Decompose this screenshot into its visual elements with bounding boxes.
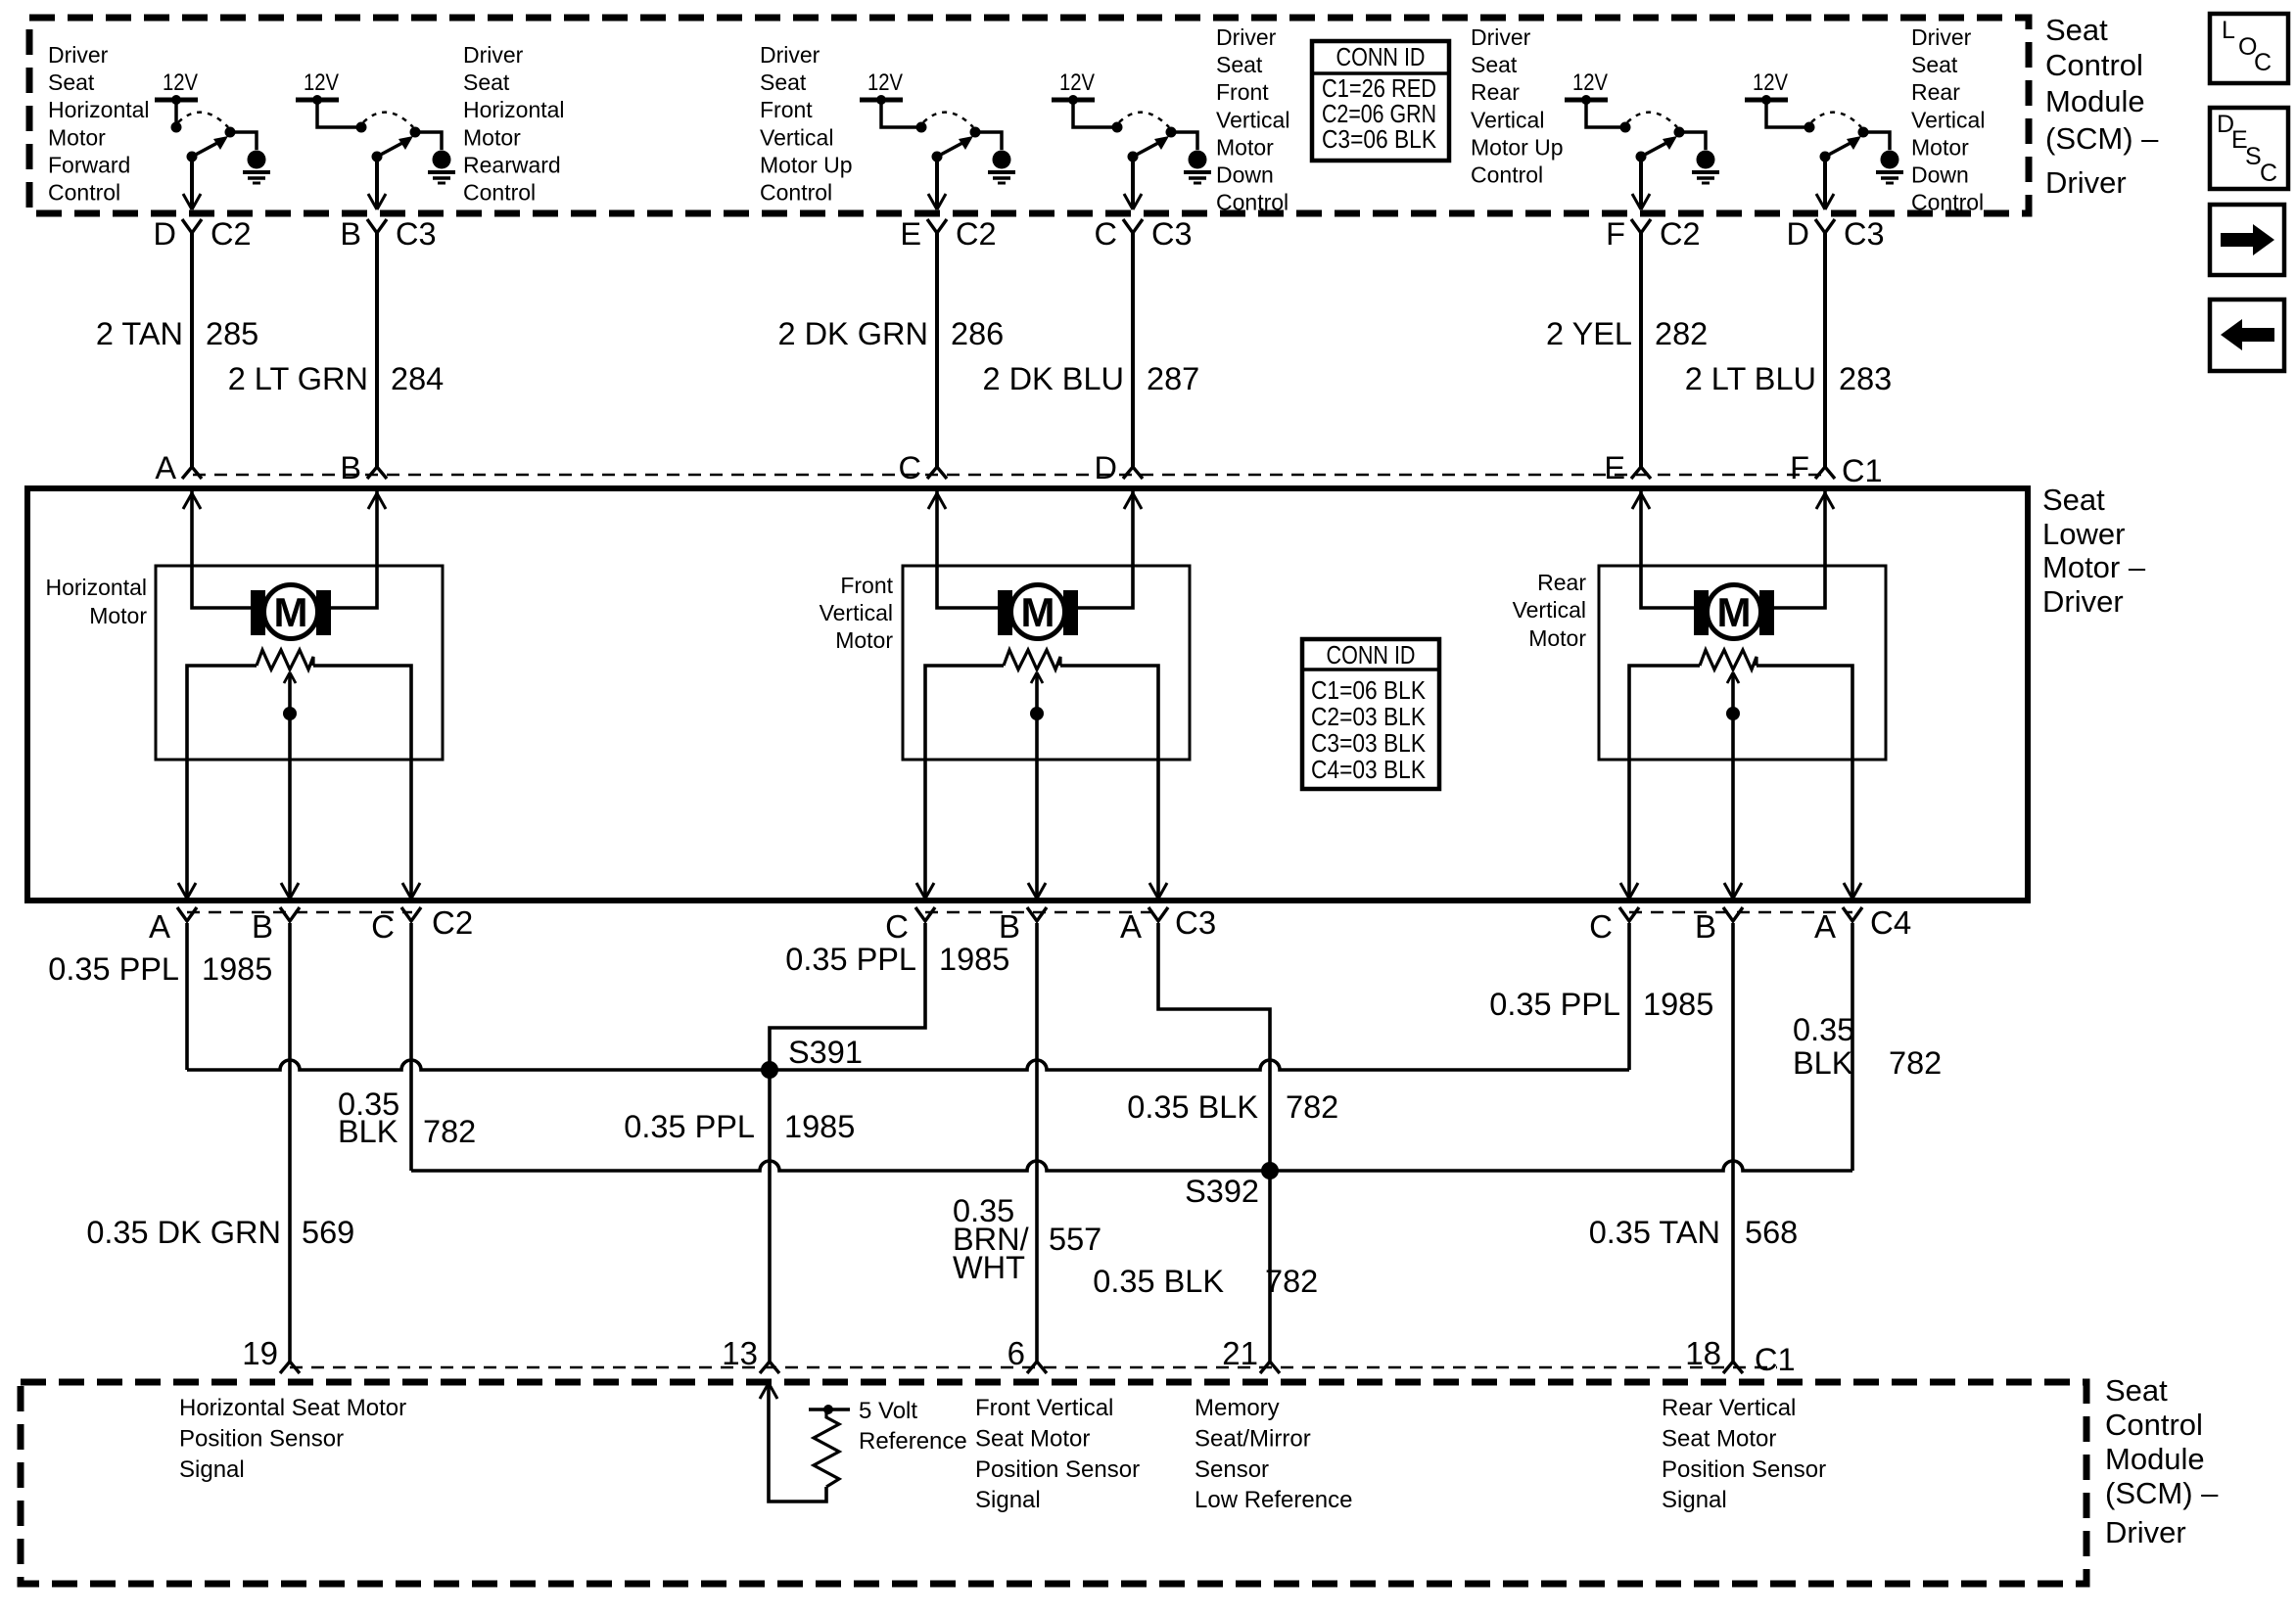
- svg-text:Horizontal Seat Motor: Horizontal Seat Motor: [179, 1395, 406, 1421]
- svg-text:B: B: [252, 908, 273, 945]
- svg-text:Control: Control: [1911, 190, 1984, 215]
- box Seat Control Module (SCM) Driver - bottom (dashed): [21, 1382, 2086, 1584]
- wire SW1 output: [190, 157, 194, 208]
- svg-text:Rear: Rear: [1537, 570, 1586, 595]
- svg-text:C3: C3: [396, 216, 437, 252]
- connector ID table CONN ID (middle): [1302, 639, 1439, 789]
- svg-text:A: A: [149, 908, 170, 945]
- svg-text:B: B: [1695, 908, 1716, 945]
- svg-text:M: M: [1717, 589, 1752, 635]
- wire R3 wiper: [1731, 674, 1735, 899]
- svg-text:Seat Motor: Seat Motor: [1662, 1425, 1776, 1452]
- wire M1 left feed: [192, 491, 251, 608]
- svg-text:Horizontal: Horizontal: [463, 97, 565, 122]
- svg-text:Down: Down: [1216, 162, 1274, 188]
- switch SW5 common contact: [1620, 122, 1631, 133]
- svg-text:569: 569: [302, 1215, 354, 1250]
- arrow into motor box at 1157: [1124, 493, 1142, 509]
- wire SW1 feed: [174, 100, 178, 126]
- box Seat Lower Motor - Driver (solid): [27, 488, 2028, 901]
- wire 2 DK GRN 286: [935, 233, 939, 467]
- switch SW1 NC contact: [225, 127, 236, 138]
- svg-text:2 TAN: 2 TAN: [96, 316, 183, 351]
- switch SW2 NC contact: [410, 127, 421, 138]
- svg-text:S391: S391: [788, 1035, 863, 1070]
- svg-text:Signal: Signal: [179, 1456, 245, 1483]
- wire SW3 output: [935, 157, 939, 208]
- svg-text:Down: Down: [1911, 162, 1969, 188]
- arrow out of motor box at 1059: [1028, 883, 1046, 899]
- switch SW3 pivot: [932, 152, 943, 162]
- svg-text:2 DK BLU: 2 DK BLU: [982, 361, 1124, 396]
- svg-text:Control: Control: [463, 180, 536, 206]
- switch SW4 movable blade: [1133, 143, 1158, 157]
- svg-text:782: 782: [423, 1114, 476, 1149]
- svg-text:285: 285: [206, 316, 258, 351]
- connector pin D of C3 (top row): [1815, 219, 1835, 233]
- svg-text:Motor: Motor: [1216, 134, 1274, 160]
- arrow SW4 output into connector: [1124, 194, 1142, 209]
- wire 2 LT GRN 284: [375, 233, 379, 467]
- svg-text:Motor: Motor: [1911, 134, 1969, 160]
- svg-text:6: 6: [1007, 1335, 1025, 1371]
- svg-text:C2: C2: [956, 216, 997, 252]
- svg-text:Module: Module: [2105, 1442, 2205, 1476]
- svg-text:Forward: Forward: [48, 152, 130, 177]
- switch SW6 dashed travel arc: [1811, 113, 1861, 127]
- svg-text:C2: C2: [211, 216, 252, 252]
- ground G6: [1881, 151, 1899, 169]
- svg-text:Vertical: Vertical: [1911, 107, 1985, 132]
- wire 0.35 BLK 782 from C2-C down: [409, 923, 413, 1171]
- switch SW2 pivot: [372, 152, 383, 162]
- svg-text:C2: C2: [1660, 216, 1701, 252]
- svg-text:557: 557: [1049, 1222, 1101, 1257]
- svg-text:Seat: Seat: [1471, 52, 1518, 77]
- switch SW6 movable blade: [1825, 143, 1851, 157]
- node wiper junction M3: [1726, 707, 1740, 720]
- wire SW5 NC to ground: [1679, 132, 1706, 150]
- svg-text:E: E: [900, 216, 921, 252]
- wire 0.35 BLK 782 from C3-A to S392: [1158, 923, 1270, 1171]
- svg-text:D: D: [154, 216, 176, 252]
- svg-text:0.35 DK GRN: 0.35 DK GRN: [86, 1215, 281, 1250]
- svg-text:C4: C4: [1870, 904, 1911, 941]
- connector pin F of C1 (row 2): [1815, 467, 1835, 479]
- svg-text:CONN ID: CONN ID: [1327, 640, 1416, 670]
- svg-text:Seat: Seat: [2105, 1373, 2168, 1408]
- arrow out of motor box at 1770: [1724, 883, 1742, 899]
- motor sub-box M2: [903, 566, 1190, 760]
- svg-text:C1: C1: [1842, 453, 1883, 488]
- svg-text:1985: 1985: [202, 951, 272, 987]
- svg-text:Front Vertical: Front Vertical: [975, 1395, 1113, 1421]
- wire 0.35 BRN/WHT 557: [1035, 923, 1039, 1364]
- svg-text:Seat Motor: Seat Motor: [975, 1425, 1090, 1452]
- connector pin B of C3 (top row): [367, 219, 387, 233]
- connector pin A (row 3): [1843, 907, 1862, 921]
- wire 2 DK BLU 287: [1131, 233, 1135, 467]
- svg-text:C: C: [899, 450, 921, 485]
- arrow into motor box at 1676: [1632, 493, 1650, 509]
- wire 0.35 PPL 1985 from S391 right: [770, 1060, 1629, 1070]
- connector C4 dashed line (row 3): [1629, 911, 1852, 914]
- svg-text:Driver: Driver: [463, 42, 524, 68]
- svg-text:Control: Control: [2045, 48, 2143, 82]
- wire M1 right feed: [331, 491, 377, 608]
- wire 5 Volt reference: [769, 1385, 826, 1501]
- svg-text:CONN ID: CONN ID: [1336, 42, 1426, 71]
- switch SW2 common contact: [356, 122, 367, 133]
- svg-text:19: 19: [242, 1335, 278, 1371]
- wire SW6 feed: [1766, 100, 1809, 127]
- svg-text:0.35: 0.35: [1793, 1012, 1854, 1047]
- arrow SW3 output into connector: [928, 194, 946, 209]
- svg-text:C3=03 BLK: C3=03 BLK: [1311, 728, 1427, 758]
- connector pin E of C2 (top row): [927, 219, 947, 233]
- wire 2 LT BLU 283: [1823, 233, 1827, 467]
- wire 2 TAN 285: [190, 233, 194, 467]
- svg-text:Position Sensor: Position Sensor: [975, 1456, 1140, 1483]
- svg-text:Seat: Seat: [2042, 483, 2105, 517]
- svg-text:Horizontal: Horizontal: [48, 97, 150, 122]
- svg-text:Motor –: Motor –: [2042, 550, 2146, 584]
- switch SW6 NC contact: [1858, 127, 1869, 138]
- svg-text:(SCM) –: (SCM) –: [2045, 121, 2159, 156]
- wire M3 left feed: [1641, 491, 1694, 608]
- svg-text:Position Sensor: Position Sensor: [179, 1425, 344, 1452]
- svg-text:Control: Control: [1471, 162, 1543, 188]
- svg-text:Vertical: Vertical: [1513, 597, 1586, 623]
- svg-text:12V: 12V: [1059, 69, 1095, 96]
- svg-text:Rearward: Rearward: [463, 152, 561, 177]
- connector pin F of C2 (top row): [1631, 219, 1651, 233]
- potentiometer R1 zigzag: [257, 650, 313, 670]
- switch SW1 movable blade: [192, 143, 217, 157]
- ground G2: [433, 151, 451, 169]
- svg-text:C1=06 BLK: C1=06 BLK: [1311, 675, 1427, 705]
- wire M2 right feed: [1078, 491, 1133, 608]
- svg-text:1985: 1985: [784, 1109, 855, 1144]
- motor M2 armature circle: [1011, 585, 1065, 639]
- svg-text:12V: 12V: [304, 69, 339, 96]
- svg-text:Driver: Driver: [2042, 584, 2124, 619]
- svg-text:A: A: [1814, 908, 1836, 945]
- arrow into motor box at 957: [928, 493, 946, 509]
- svg-text:Memory: Memory: [1195, 1395, 1280, 1421]
- svg-text:Signal: Signal: [1662, 1487, 1727, 1513]
- svg-text:C: C: [1095, 216, 1117, 252]
- svg-text:0.35 BLK: 0.35 BLK: [1093, 1264, 1224, 1299]
- svg-text:2 YEL: 2 YEL: [1546, 316, 1632, 351]
- box right-arrow: [2210, 205, 2284, 275]
- svg-text:M: M: [274, 589, 308, 635]
- svg-text:Seat: Seat: [1216, 52, 1263, 77]
- arrow into motor box at 196: [183, 493, 201, 509]
- svg-text:Driver: Driver: [1911, 24, 1972, 50]
- svg-text:12V: 12V: [163, 69, 198, 96]
- wire R1 wiper: [288, 674, 292, 899]
- wire M2 left feed: [937, 491, 998, 608]
- svg-text:C: C: [1589, 908, 1613, 945]
- switch SW4 common contact: [1112, 122, 1123, 133]
- svg-text:12V: 12V: [1753, 69, 1788, 96]
- svg-text:F: F: [1790, 450, 1809, 485]
- svg-text:Rear Vertical: Rear Vertical: [1662, 1395, 1796, 1421]
- svg-text:A: A: [1120, 908, 1142, 945]
- svg-text:M: M: [1021, 589, 1055, 635]
- motor M2 brushes: [998, 590, 1012, 635]
- switch SW6 common contact: [1804, 122, 1815, 133]
- wire SW3 NC to ground: [975, 132, 1002, 150]
- connector pin A (row 3): [177, 907, 197, 921]
- ground G3: [993, 151, 1011, 169]
- resistor 5V reference zigzag: [814, 1409, 839, 1487]
- connector pin A of C1 (row 2): [182, 467, 202, 479]
- svg-text:Vertical: Vertical: [1471, 107, 1544, 132]
- wire SW4 feed: [1073, 100, 1117, 127]
- svg-text:0.35 PPL: 0.35 PPL: [785, 942, 916, 977]
- wire 0.35 BLK 782 from S392 right: [1270, 1161, 1852, 1171]
- svg-text:S392: S392: [1185, 1174, 1259, 1209]
- arrow out of motor box at 1892: [1844, 883, 1861, 899]
- svg-text:Control: Control: [1216, 190, 1289, 215]
- svg-text:0.35 BLK: 0.35 BLK: [1127, 1089, 1258, 1125]
- svg-text:782: 782: [1889, 1045, 1942, 1081]
- switch SW5 NC contact: [1674, 127, 1685, 138]
- connector C3 dashed line (row 3): [925, 911, 1158, 914]
- box left-arrow: [2210, 300, 2284, 371]
- switch SW1 common contact: [171, 122, 182, 133]
- wire 0.35 PPL 1985 down to pin 13: [768, 1070, 772, 1364]
- node wiper junction M1: [283, 707, 297, 720]
- svg-text:Position Sensor: Position Sensor: [1662, 1456, 1826, 1483]
- svg-text:287: 287: [1147, 361, 1199, 396]
- connector pin B (row 3): [1723, 907, 1743, 921]
- ground G1: [248, 151, 266, 169]
- wire 0.35 BLK 782 up to C4-A: [1851, 923, 1854, 1171]
- svg-text:12V: 12V: [867, 69, 903, 96]
- wire R3 right lead: [1757, 666, 1852, 899]
- node 5V reference terminal bar: [809, 1408, 850, 1411]
- arrow SW5 output into connector: [1632, 194, 1650, 209]
- motor M1 armature circle: [264, 585, 318, 639]
- switch SW3 dashed travel arc: [923, 113, 973, 127]
- svg-text:L: L: [2222, 17, 2235, 44]
- switch SW5 pivot: [1636, 152, 1647, 162]
- svg-text:0.35 PPL: 0.35 PPL: [48, 951, 179, 987]
- svg-text:13: 13: [722, 1335, 758, 1371]
- svg-text:F: F: [1606, 216, 1625, 252]
- motor M3 brushes: [1694, 590, 1709, 635]
- wire 0.35 DK GRN 569: [288, 923, 292, 1364]
- svg-text:2 LT BLU: 2 LT BLU: [1685, 361, 1816, 396]
- wire R1 left lead: [187, 666, 257, 899]
- svg-text:(SCM) –: (SCM) –: [2105, 1476, 2219, 1510]
- svg-text:B: B: [999, 908, 1020, 945]
- wire SW6 NC to ground: [1863, 132, 1890, 150]
- connector pin B (row 3): [280, 907, 300, 921]
- svg-text:Reference: Reference: [859, 1428, 967, 1455]
- svg-text:C2: C2: [432, 904, 473, 941]
- arrow out of motor box at 1183: [1149, 883, 1167, 899]
- wire R2 left lead: [925, 666, 1004, 899]
- svg-text:C3=06 BLK: C3=06 BLK: [1322, 124, 1437, 154]
- svg-text:Lower: Lower: [2042, 517, 2125, 551]
- connector pin C of C3 (top row): [1123, 219, 1143, 233]
- svg-text:Rear: Rear: [1471, 79, 1520, 105]
- switch SW5 dashed travel arc: [1627, 113, 1677, 127]
- wire 0.35 PPL 1985 from C3-C to S391: [770, 923, 925, 1070]
- svg-text:286: 286: [951, 316, 1004, 351]
- svg-text:Seat/Mirror: Seat/Mirror: [1195, 1425, 1311, 1452]
- svg-text:Driver: Driver: [1471, 24, 1531, 50]
- svg-text:Control: Control: [48, 180, 120, 206]
- box Seat Control Module (SCM) Driver - top (dashed): [29, 18, 2029, 213]
- wire 0.35 TAN 568: [1731, 923, 1735, 1364]
- connector pin C of C1 (row 2): [927, 467, 947, 479]
- wire 0.35 PPL 1985 horizontal to S391: [187, 1060, 770, 1070]
- wire SW3 feed: [881, 100, 921, 127]
- connector pin 6 of C1 (bottom row): [1027, 1362, 1047, 1373]
- wire SW6 output: [1823, 157, 1827, 208]
- arrow 5V reference up: [760, 1383, 777, 1399]
- svg-text:D: D: [1095, 450, 1117, 485]
- svg-text:Front: Front: [760, 97, 813, 122]
- arrow SW2 output into connector: [368, 194, 386, 209]
- switch SW2 movable blade: [377, 143, 402, 157]
- svg-text:Control: Control: [760, 180, 832, 206]
- svg-text:B: B: [340, 216, 361, 252]
- wire SW2 feed: [317, 100, 361, 127]
- connector pin D of C2 (top row): [182, 219, 202, 233]
- wire R2 right lead: [1060, 666, 1158, 899]
- wire M3 right feed: [1774, 491, 1825, 608]
- motor M1 brushes: [251, 590, 265, 635]
- switch SW5 movable blade: [1641, 143, 1666, 157]
- svg-text:D: D: [1787, 216, 1809, 252]
- svg-text:Motor Up: Motor Up: [1471, 134, 1564, 160]
- connector pin C (row 3): [1619, 907, 1639, 921]
- wire R1 right lead: [313, 666, 411, 899]
- connector pin C (row 3): [401, 907, 421, 921]
- svg-text:Front: Front: [840, 573, 893, 598]
- ground G4: [1189, 151, 1207, 169]
- svg-text:Low Reference: Low Reference: [1195, 1487, 1352, 1513]
- wire 0.35 BLK 782 down to pin 21: [1268, 1171, 1272, 1364]
- svg-text:Seat: Seat: [463, 69, 510, 95]
- switch SW4 pivot: [1128, 152, 1139, 162]
- wire 0.35 BLK 782 horizontal to S392: [411, 1161, 1270, 1171]
- wire SW2 output: [375, 157, 379, 208]
- svg-text:284: 284: [391, 361, 444, 396]
- wire R2 wiper: [1035, 674, 1039, 899]
- splice S391: [761, 1061, 778, 1079]
- svg-text:Driver: Driver: [2045, 165, 2127, 200]
- svg-text:Motor: Motor: [463, 124, 521, 150]
- svg-text:2 DK GRN: 2 DK GRN: [777, 316, 928, 351]
- wire SW5 feed: [1586, 100, 1625, 127]
- switch SW3 common contact: [916, 122, 927, 133]
- svg-text:Driver: Driver: [1216, 24, 1277, 50]
- svg-text:C1: C1: [1755, 1342, 1796, 1377]
- svg-text:C3: C3: [1151, 216, 1193, 252]
- arrow SW6 output into connector: [1816, 194, 1834, 209]
- svg-text:C3: C3: [1175, 904, 1216, 941]
- switch SW3 movable blade: [937, 143, 962, 157]
- switch SW6 pivot: [1820, 152, 1831, 162]
- svg-text:Motor Up: Motor Up: [760, 152, 853, 177]
- svg-text:Driver: Driver: [2105, 1515, 2186, 1549]
- svg-text:Horizontal: Horizontal: [45, 575, 147, 600]
- connector C2 dashed line (row 3): [187, 911, 412, 914]
- svg-text:Vertical: Vertical: [1216, 107, 1289, 132]
- wire 0.35 PPL 1985 up to C4-C: [1627, 923, 1631, 1070]
- connector pin 18 of C1 (bottom row): [1723, 1362, 1743, 1373]
- svg-text:Module: Module: [2045, 84, 2145, 118]
- connector pin B (row 3): [1027, 907, 1047, 921]
- wire SW4 NC to ground: [1171, 132, 1197, 150]
- svg-text:Signal: Signal: [975, 1487, 1041, 1513]
- switch SW3 NC contact: [970, 127, 981, 138]
- svg-text:Control: Control: [2105, 1408, 2203, 1442]
- wire 0.35 PPL 1985 from C2-A down: [185, 923, 189, 1070]
- wire SW5 output: [1639, 157, 1643, 208]
- svg-text:C4=03 BLK: C4=03 BLK: [1311, 755, 1427, 784]
- switch SW1 dashed travel arc: [178, 113, 228, 127]
- svg-text:Motor: Motor: [89, 603, 147, 628]
- wire R3 left lead: [1629, 666, 1700, 899]
- wire SW4 output: [1131, 157, 1135, 208]
- node wiper junction M2: [1030, 707, 1044, 720]
- splice S392: [1261, 1162, 1279, 1179]
- arrow out of motor box at 296: [281, 883, 299, 899]
- svg-text:5 Volt: 5 Volt: [859, 1398, 917, 1424]
- svg-text:282: 282: [1655, 316, 1708, 351]
- connector ID table CONN ID (top): [1312, 41, 1449, 161]
- motor M3 armature circle: [1708, 585, 1761, 639]
- svg-text:C3: C3: [1844, 216, 1885, 252]
- svg-text:C: C: [2260, 160, 2277, 187]
- svg-text:C: C: [371, 908, 395, 945]
- switch SW4 dashed travel arc: [1119, 113, 1169, 127]
- wire 2 YEL 282: [1639, 233, 1643, 467]
- svg-text:BLK: BLK: [338, 1114, 398, 1149]
- box LOC: [2210, 14, 2288, 83]
- connector C1 dashed line (row 4): [290, 1366, 1777, 1369]
- ground G5: [1697, 151, 1715, 169]
- svg-text:0.35 PPL: 0.35 PPL: [1489, 987, 1620, 1022]
- svg-text:Seat: Seat: [48, 69, 95, 95]
- svg-text:C: C: [885, 908, 909, 945]
- svg-text:568: 568: [1745, 1215, 1798, 1250]
- svg-text:Vertical: Vertical: [820, 600, 893, 625]
- svg-text:283: 283: [1839, 361, 1892, 396]
- motor sub-box M3: [1599, 566, 1886, 760]
- svg-text:0.35 PPL: 0.35 PPL: [624, 1109, 755, 1144]
- switch SW2 dashed travel arc: [363, 113, 413, 127]
- svg-text:C2=03 BLK: C2=03 BLK: [1311, 702, 1427, 731]
- svg-text:Rear: Rear: [1911, 79, 1960, 105]
- svg-text:18: 18: [1685, 1335, 1721, 1371]
- switch SW4 NC contact: [1166, 127, 1177, 138]
- svg-text:Vertical: Vertical: [760, 124, 833, 150]
- connector pin 13 of C1 (bottom row): [760, 1362, 779, 1373]
- arrow out of motor box at 1664: [1620, 883, 1638, 899]
- svg-text:Seat: Seat: [760, 69, 807, 95]
- connector pin 19 of C1 (bottom row): [280, 1362, 300, 1373]
- arrow out of motor box at 191: [178, 883, 196, 899]
